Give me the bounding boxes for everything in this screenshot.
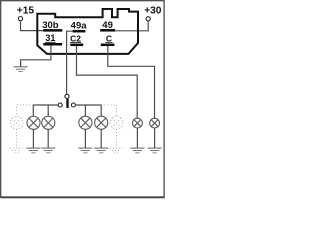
svg-text:C2: C2 [70, 33, 81, 43]
switch contact: terminal circle left [58, 103, 62, 107]
svg-text:30b: 30b [42, 20, 59, 31]
lamp R1 [79, 116, 92, 129]
ground symbol (terminal 31) [14, 67, 28, 72]
dotted ground symbol L0 [10, 148, 23, 153]
svg-text:31: 31 [45, 33, 55, 43]
svg-text:C: C [106, 34, 112, 44]
wire C2 to pilot lamp F1 [77, 46, 138, 118]
wire left lamp bus [33, 105, 58, 116]
wire lamp F2 to ground [154, 128, 156, 148]
terminal bar C [101, 44, 115, 47]
switch plunger bar [66, 99, 68, 108]
dotted ground symbol R3 [110, 148, 123, 153]
wire lamp L2 to ground [47, 129, 49, 148]
svg-text:+30: +30 [144, 6, 162, 17]
switch contact: terminal circle top (49a) [65, 94, 69, 98]
terminal bar 30b [43, 29, 62, 32]
terminal bar 31 [43, 43, 62, 46]
underline C [105, 42, 112, 44]
wire +30 to 49 [115, 21, 148, 31]
wire 49a to switch contact [67, 31, 73, 94]
border frame [1, 1, 164, 197]
svg-text:49a: 49a [71, 21, 88, 32]
terminal circle +15 [18, 17, 22, 21]
wire lamp F1 to ground [136, 128, 138, 148]
ground symbol R1 [78, 148, 92, 153]
wire +15 to 30b [21, 21, 44, 31]
wire C to pilot lamp F2 [108, 46, 155, 118]
wire lamp R1 to ground [84, 129, 86, 148]
ground symbol L1 [26, 148, 40, 153]
terminal bar 49 [100, 29, 115, 32]
terminal bar C2 [70, 44, 83, 47]
ground symbol L2 [41, 148, 55, 153]
dotted trailer lamp R3 [110, 116, 123, 129]
ground symbol F2 [148, 148, 162, 153]
svg-text:49: 49 [102, 20, 113, 31]
lamp L2 [42, 116, 55, 129]
pilot lamp F1 [133, 118, 143, 128]
ground symbol R2 [94, 148, 108, 153]
lamp R2 [95, 116, 108, 129]
terminal circle +30 [146, 17, 150, 21]
dotted trailer lamp L0 [10, 116, 23, 129]
underline C2 [70, 42, 81, 44]
terminal bar 49a [73, 30, 86, 33]
svg-text:+15: +15 [17, 5, 35, 16]
ground symbol F1 [130, 148, 144, 153]
wire right lamp bus [76, 105, 102, 116]
dotted wire to trailer lamp right [101, 105, 116, 148]
dotted wire to trailer lamp left [17, 105, 34, 148]
wire 31 to ground [21, 46, 51, 67]
underline 31 [45, 41, 55, 43]
wire lamp L1 to ground [32, 129, 34, 148]
switch body S1 outline [37, 9, 138, 54]
switch contact: terminal circle right [71, 103, 75, 107]
pilot lamp F2 [150, 118, 160, 128]
wire lamp R2 to ground [100, 129, 102, 148]
lamp L1 [27, 116, 40, 129]
